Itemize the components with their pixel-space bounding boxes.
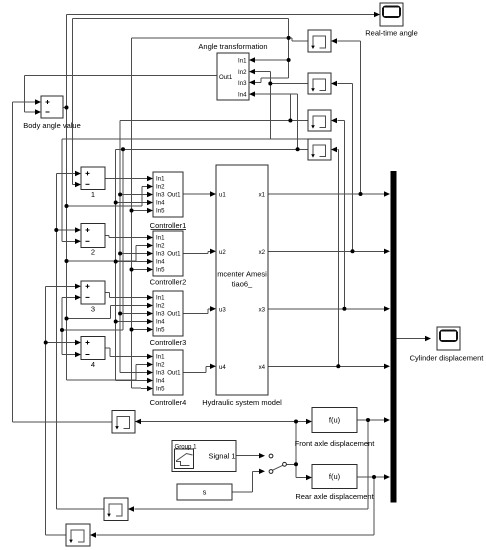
svg-text:Hydraulic system model: Hydraulic system model (202, 398, 282, 407)
svg-text:In3: In3 (156, 311, 165, 318)
svg-text:x2: x2 (259, 249, 266, 256)
svg-text:In1: In1 (156, 354, 165, 361)
svg-text:In4: In4 (238, 92, 247, 99)
svg-text:x4: x4 (259, 364, 266, 371)
svg-text:x1: x1 (259, 192, 266, 199)
svg-text:In1: In1 (156, 235, 165, 242)
svg-text:In5: In5 (156, 208, 165, 215)
svg-text:In3: In3 (156, 192, 165, 199)
svg-text:Rear axle displacement: Rear axle displacement (295, 492, 374, 501)
svg-text:In4: In4 (156, 378, 165, 385)
svg-text:In1: In1 (156, 295, 165, 302)
svg-text:In3: In3 (156, 251, 165, 258)
svg-text:u4: u4 (219, 364, 226, 371)
svg-text:Out1: Out1 (167, 192, 181, 199)
svg-text:Real-time angle: Real-time angle (365, 28, 418, 37)
svg-text:Out1: Out1 (219, 74, 233, 81)
svg-text:tiao6_: tiao6_ (232, 280, 253, 289)
svg-text:Controller4: Controller4 (150, 398, 187, 407)
svg-text:Controller3: Controller3 (150, 338, 187, 347)
svg-text:3: 3 (91, 305, 95, 314)
svg-text:Out1: Out1 (167, 311, 181, 318)
svg-text:In3: In3 (156, 370, 165, 377)
svg-text:In4: In4 (156, 319, 165, 326)
svg-text:Out1: Out1 (167, 370, 181, 377)
svg-text:In5: In5 (156, 327, 165, 334)
svg-text:In2: In2 (156, 243, 165, 250)
svg-text:1: 1 (91, 190, 95, 199)
svg-text:In5: In5 (156, 386, 165, 393)
svg-text:Group 1: Group 1 (175, 443, 198, 450)
svg-text:mcenter Amesi: mcenter Amesi (217, 270, 267, 279)
svg-text:f(u): f(u) (329, 472, 341, 481)
svg-text:Angle transformation: Angle transformation (198, 42, 267, 51)
svg-text:In2: In2 (156, 184, 165, 191)
svg-text:f(u): f(u) (329, 416, 341, 425)
svg-text:Cylinder displacement: Cylinder displacement (410, 354, 485, 363)
svg-text:u2: u2 (219, 249, 226, 256)
svg-text:2: 2 (91, 248, 95, 257)
svg-text:Controller2: Controller2 (150, 277, 187, 286)
svg-text:u1: u1 (219, 192, 226, 199)
svg-text:In4: In4 (156, 259, 165, 266)
svg-text:s: s (203, 488, 207, 497)
svg-text:In1: In1 (238, 58, 247, 65)
svg-text:Controller1: Controller1 (150, 221, 187, 230)
svg-text:In5: In5 (156, 267, 165, 274)
svg-text:Front axle displacement: Front axle displacement (295, 439, 376, 448)
svg-text:In3: In3 (238, 80, 247, 87)
svg-text:In2: In2 (156, 362, 165, 369)
svg-text:Out1: Out1 (167, 251, 181, 258)
svg-text:Signal 1: Signal 1 (208, 451, 235, 460)
svg-text:u3: u3 (219, 306, 226, 313)
svg-text:4: 4 (91, 360, 95, 369)
svg-text:In2: In2 (156, 303, 165, 310)
svg-text:In1: In1 (156, 176, 165, 183)
svg-text:In4: In4 (156, 200, 165, 207)
svg-text:In2: In2 (238, 69, 247, 76)
svg-text:Body angle value: Body angle value (23, 121, 81, 130)
svg-text:x3: x3 (259, 306, 266, 313)
